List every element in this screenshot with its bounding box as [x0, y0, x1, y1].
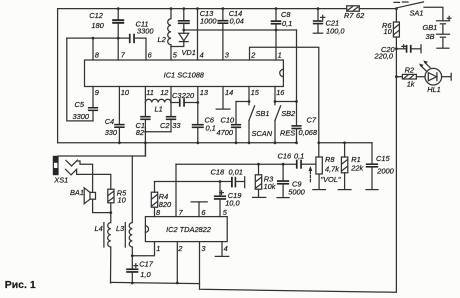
svg-text:1: 1 — [278, 51, 282, 60]
svg-text:HL1: HL1 — [427, 85, 441, 94]
svg-text:R8: R8 — [325, 155, 335, 164]
svg-text:0,04: 0,04 — [230, 16, 244, 25]
resistor R6 — [382, 9, 399, 49]
wire: ground rail — [58, 142, 297, 144]
svg-text:C8: C8 — [281, 10, 291, 19]
pushbutton SB1 SCAN — [249, 106, 273, 143]
capacitor C9 — [277, 164, 306, 197]
IC IC1 SC1088 — [85, 60, 284, 87]
capacitor C6 on pin 13 — [192, 87, 216, 143]
wire: IC2 pin 3 to V+ bottom — [200, 242, 397, 293]
resistor R3 — [253, 164, 276, 197]
svg-text:6: 6 — [201, 208, 206, 217]
wire: pin8 pin7 C11 feed line — [67, 38, 129, 60]
wire: pin 2 to volume line — [250, 47, 319, 157]
svg-text:BA1: BA1 — [70, 188, 84, 197]
svg-text:62: 62 — [356, 11, 364, 20]
battery GB1 — [423, 16, 451, 48]
wire: C1 C2 bottom join down to XS1 — [145, 132, 171, 156]
svg-text:0,1: 0,1 — [282, 19, 292, 28]
inductor L3 — [116, 156, 132, 256]
capacitor C8 — [271, 9, 293, 60]
svg-text:7: 7 — [179, 208, 184, 217]
svg-text:R7: R7 — [344, 11, 354, 20]
wire: pin 7 stub — [117, 38, 119, 60]
capacitor C17 — [126, 256, 154, 283]
varicap diode VD1 — [171, 33, 196, 57]
IC2 bottom pin numbers — [156, 244, 227, 253]
LED HL1 — [419, 60, 451, 94]
svg-text:11: 11 — [146, 88, 154, 97]
capacitor C11 — [129, 19, 154, 60]
wire: IC2 pin 1 to C17 — [132, 242, 154, 256]
potentiometer R8 VOL — [302, 155, 341, 189]
svg-text:8: 8 — [156, 208, 161, 217]
svg-text:SB1: SB1 — [256, 109, 270, 118]
svg-text:7: 7 — [121, 51, 126, 60]
svg-text:22k: 22k — [350, 164, 363, 173]
svg-text:C17: C17 — [139, 259, 153, 268]
ground: IC2 pin 4 — [215, 242, 228, 257]
svg-text:C2: C2 — [160, 121, 169, 130]
svg-text:L3: L3 — [116, 224, 125, 233]
switch SA1 — [394, 2, 443, 21]
svg-text:3300: 3300 — [137, 27, 154, 36]
svg-text:220,0: 220,0 — [374, 51, 394, 60]
resistor R7 — [344, 6, 364, 20]
svg-text:14: 14 — [225, 88, 233, 97]
IC1 bottom pin numbers — [95, 88, 286, 97]
wire: pin 5 stub — [170, 47, 172, 61]
svg-text:R2: R2 — [405, 65, 414, 74]
wire: pin 4 — [197, 9, 199, 60]
svg-text:C10: C10 — [221, 115, 235, 124]
svg-text:IC1 SC1088: IC1 SC1088 — [164, 71, 205, 80]
svg-text:6: 6 — [148, 51, 153, 60]
jack XS1 — [53, 143, 145, 193]
wire: varicap node to pin1 line (y30) — [184, 29, 297, 31]
resistor R1 — [338, 143, 363, 190]
svg-text:330: 330 — [105, 128, 118, 137]
svg-text:3300: 3300 — [73, 112, 90, 121]
capacitor C19 — [214, 182, 241, 217]
pushbutton SB2 RES — [275, 106, 295, 143]
svg-text:SA1: SA1 — [410, 8, 424, 17]
svg-text:L1: L1 — [155, 105, 163, 114]
wire: top V+ rail — [58, 8, 397, 10]
svg-text:4,7k: 4,7k — [325, 164, 339, 173]
wire: audio line from IC2 pin 7 — [176, 163, 296, 165]
svg-text:3B: 3B — [426, 32, 435, 41]
svg-text:RES: RES — [280, 128, 295, 137]
capacitor C15 — [366, 143, 395, 190]
capacitor C18 — [211, 168, 245, 188]
wire: bottom rail — [111, 282, 200, 283]
capacitor C20 — [374, 45, 422, 61]
svg-text:0,1: 0,1 — [206, 124, 216, 133]
capacitor C12 — [89, 9, 124, 38]
svg-text:L2: L2 — [158, 35, 166, 44]
svg-text:2: 2 — [177, 244, 182, 253]
svg-text:1: 1 — [156, 244, 160, 253]
svg-text:9: 9 — [95, 88, 99, 97]
capacitor C13 — [178, 9, 218, 34]
ground: IC2 pin 6 — [191, 202, 207, 217]
svg-text:"VOL": "VOL" — [321, 175, 341, 184]
svg-text:1k: 1k — [407, 79, 415, 88]
svg-text:C18: C18 — [211, 168, 225, 177]
IC IC2 TDA2822 — [145, 217, 227, 242]
capacitor C4 — [105, 87, 125, 143]
svg-text:12: 12 — [160, 88, 168, 97]
svg-text:0,01: 0,01 — [229, 168, 243, 177]
svg-text:C7: C7 — [307, 116, 317, 125]
svg-text:100,0: 100,0 — [326, 27, 345, 36]
wire: R4 C19 C18 line — [155, 181, 232, 183]
svg-text:C16: C16 — [278, 152, 292, 161]
svg-text:33: 33 — [172, 121, 181, 130]
capacitor C14 — [217, 9, 243, 60]
svg-text:8: 8 — [95, 51, 100, 60]
inductor L1 — [145, 87, 171, 114]
inductor L4 — [95, 213, 111, 283]
svg-text:SB2: SB2 — [281, 109, 295, 118]
capacitor C21 — [313, 9, 346, 36]
capacitor C7 — [291, 116, 317, 143]
resistor R2 — [396, 65, 425, 88]
capacitor C16 — [278, 152, 305, 169]
svg-text:IC2 TDA2822: IC2 TDA2822 — [166, 225, 211, 234]
svg-text:2: 2 — [250, 51, 255, 60]
svg-text:10k: 10k — [264, 182, 276, 191]
wire: left border antenna line — [57, 9, 59, 143]
resistor R4 — [151, 182, 172, 217]
wire: pin 15 — [236, 87, 249, 105]
svg-text:15: 15 — [251, 88, 260, 97]
wire: V+ right column — [395, 49, 397, 292]
svg-text:C4: C4 — [105, 117, 114, 126]
svg-text:4: 4 — [200, 51, 204, 60]
wire: signal node rail right segment — [319, 142, 372, 144]
svg-text:C5: C5 — [75, 100, 85, 109]
svg-text:2000: 2000 — [376, 167, 394, 176]
svg-text:4700: 4700 — [217, 128, 234, 137]
svg-text:VD1: VD1 — [182, 48, 196, 57]
svg-text:220: 220 — [181, 91, 195, 100]
resistor R5 — [108, 188, 127, 212]
svg-text:GB1: GB1 — [423, 23, 438, 32]
capacitor C1 — [136, 103, 151, 137]
svg-text:Рис. 1: Рис. 1 — [5, 279, 36, 291]
svg-text:5: 5 — [223, 208, 228, 217]
IC2 top pin numbers — [156, 208, 228, 217]
svg-text:C15: C15 — [376, 154, 390, 163]
ground: pin 14 — [216, 87, 230, 110]
svg-text:0,068: 0,068 — [299, 128, 318, 137]
svg-text:L4: L4 — [95, 224, 103, 233]
svg-text:5000: 5000 — [288, 188, 305, 197]
svg-text:C12: C12 — [89, 11, 103, 20]
svg-text:10,0: 10,0 — [225, 198, 240, 207]
inductor L2 — [158, 9, 172, 47]
capacitor C3 — [171, 91, 198, 107]
speaker BA1 — [70, 188, 111, 213]
wire: IC2 pin 7 up — [175, 164, 177, 216]
svg-text:3: 3 — [201, 244, 206, 253]
IC1 top pin numbers — [95, 51, 282, 60]
svg-text:1000: 1000 — [200, 17, 217, 26]
svg-text:4: 4 — [224, 244, 228, 253]
svg-text:10: 10 — [384, 27, 393, 36]
svg-text:0,1: 0,1 — [294, 152, 304, 161]
svg-text:10: 10 — [118, 196, 127, 205]
svg-text:820: 820 — [159, 200, 172, 209]
svg-text:SCAN: SCAN — [252, 129, 273, 138]
wire: branch to C7 — [296, 30, 298, 125]
svg-text:16: 16 — [276, 88, 285, 97]
svg-text:XS1: XS1 — [53, 176, 68, 185]
svg-text:82: 82 — [136, 128, 144, 137]
svg-text:C3: C3 — [172, 91, 182, 100]
capacitor C2 — [160, 103, 181, 132]
svg-text:5: 5 — [173, 51, 178, 60]
svg-text:180: 180 — [91, 21, 104, 30]
svg-text:3: 3 — [225, 51, 230, 60]
wire: pin 16 — [275, 87, 297, 105]
capacitor C10 — [217, 102, 242, 143]
wire: IC2 pin 2 to bottom rail — [176, 242, 178, 283]
capacitor C5 — [67, 38, 98, 121]
svg-text:10: 10 — [121, 88, 130, 97]
svg-text:13: 13 — [200, 88, 209, 97]
svg-text:1,0: 1,0 — [140, 270, 151, 279]
